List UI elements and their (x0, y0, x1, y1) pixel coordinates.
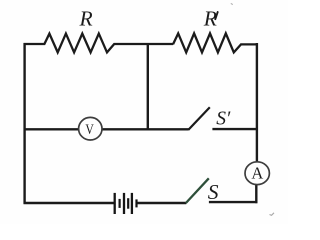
wire bottom left (24, 202, 115, 204)
battery long plate 2 (123, 193, 125, 214)
battery short plate 3 (135, 199, 137, 207)
label R' prime mark (215, 12, 217, 19)
switch S blade (green) (186, 178, 209, 203)
svg-text:R: R (79, 7, 93, 31)
battery short plate 1 (118, 199, 120, 208)
speck artifact top right (231, 3, 233, 4)
battery B1 plates (115, 193, 137, 214)
voltmeter V circle (79, 117, 102, 140)
wire voltmeter row right (102, 128, 189, 130)
wire right vertical lower (255, 185, 257, 204)
wire left vertical (23, 43, 25, 204)
wire bottom right stub (209, 201, 258, 203)
speck artifact bottom right (270, 213, 275, 216)
svg-text:S: S (208, 180, 219, 204)
wire S' stub to right (212, 128, 258, 130)
wire top with resistor R (24, 34, 174, 53)
svg-text:A: A (251, 164, 263, 183)
wire middle vertical (147, 44, 149, 131)
switch S' blade (188, 107, 210, 130)
svg-text:V: V (85, 121, 94, 138)
svg-text:S′: S′ (216, 108, 231, 129)
resistor R1 zigzag R' (173, 33, 258, 52)
wire bottom battery to switch S (137, 202, 186, 204)
ammeter A circle (245, 162, 269, 185)
battery long plate 3 (131, 193, 133, 214)
battery long plate 1 (114, 193, 116, 214)
wire voltmeter row left (25, 128, 79, 130)
battery short plate 2 (127, 198, 129, 209)
wire right vertical upper (256, 43, 258, 162)
